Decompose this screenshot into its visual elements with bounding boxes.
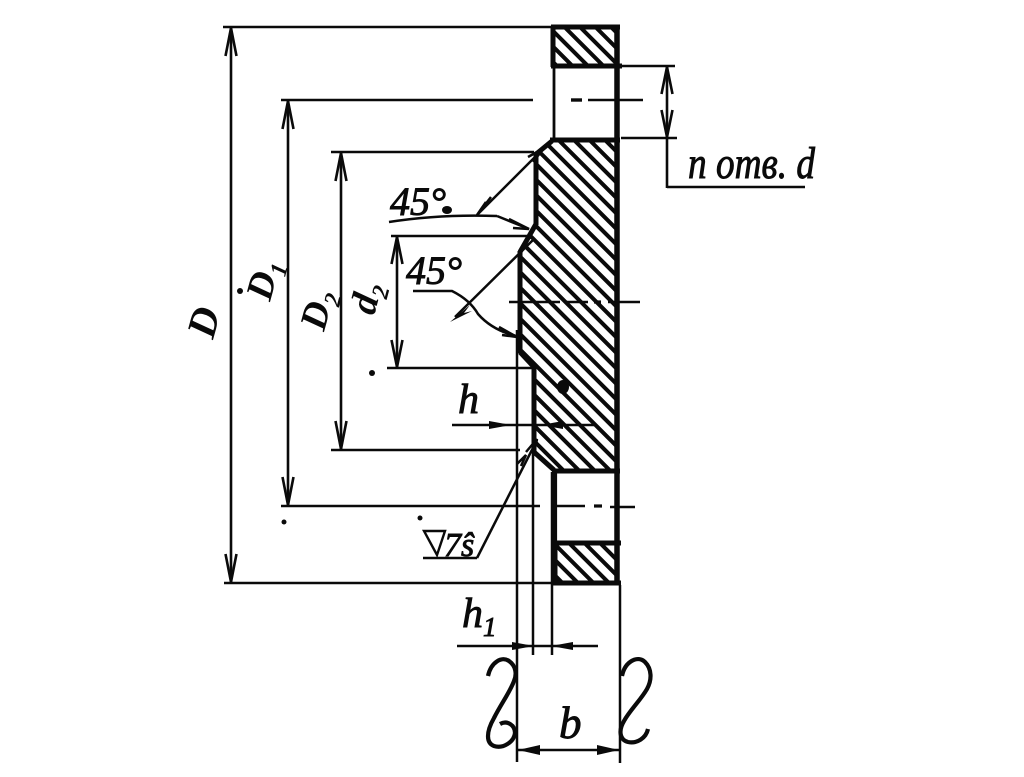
speckle dots xyxy=(237,288,243,294)
dimension h1 xyxy=(457,642,598,650)
dimension n otv d vertical line xyxy=(662,66,806,188)
extension line D1 bottom / lower bolt hole centerline xyxy=(281,506,635,507)
flange bottom ring outline xyxy=(553,543,621,583)
label d2 xyxy=(342,278,395,320)
label D2 xyxy=(292,285,348,336)
break squiggle left xyxy=(488,659,516,746)
svg-text:7ŝ: 7ŝ xyxy=(444,527,475,564)
surface finish mark (nabla) xyxy=(423,531,477,558)
extension line D2 bottom xyxy=(331,449,520,452)
bolt hole upper edge extension right xyxy=(620,65,675,68)
ink blob on section xyxy=(557,380,569,394)
dimension h xyxy=(452,421,594,429)
extension line D1 top / upper bolt hole centerline xyxy=(281,99,643,102)
extension line d2 bottom xyxy=(387,367,533,370)
leader of upper 45 label xyxy=(389,216,529,229)
arrowhead of lower chamfer line xyxy=(450,305,472,322)
bore surface extension line (vertical) xyxy=(516,330,519,762)
chamfer 45 deg extension line (upper) xyxy=(477,147,545,215)
axis centerline (dash-dot) xyxy=(509,301,640,304)
label D1 xyxy=(238,255,294,306)
svg-text:h: h xyxy=(458,377,479,423)
mid face extension line (vertical) xyxy=(532,452,535,655)
svg-text:n отв. d: n отв. d xyxy=(688,139,816,188)
period after 45 deg xyxy=(442,206,452,214)
bolt hole lower edge extension right xyxy=(621,137,677,140)
label D xyxy=(177,302,229,343)
flange top ring outline xyxy=(551,27,622,67)
dimension b xyxy=(518,745,619,755)
dimension line D2 xyxy=(336,152,347,450)
outer face extension line (vertical) xyxy=(551,472,554,655)
svg-text:b: b xyxy=(559,698,582,748)
svg-text:45°: 45° xyxy=(406,248,462,293)
lower bolt hole left edge xyxy=(553,471,557,543)
main flange body outline xyxy=(520,140,620,471)
dimension line d2 xyxy=(392,236,403,368)
upper bolt hole edge (thin) xyxy=(553,67,556,138)
flange outer edge (right) xyxy=(614,25,620,585)
extension line D top / top face xyxy=(223,26,553,29)
extension line d2 top xyxy=(391,235,527,238)
extension line D2 top xyxy=(331,151,534,154)
dimension line D1 xyxy=(283,100,294,506)
chamfer 45 deg extension line (lower) xyxy=(455,238,535,317)
hatched section: main flange body xyxy=(508,130,622,475)
dimension line D xyxy=(226,27,237,583)
break squiggle right xyxy=(621,659,651,742)
leader of surface finish mark xyxy=(477,439,537,558)
leader of lower 45 label xyxy=(413,291,517,337)
hatched section: bottom ring of flange xyxy=(552,541,622,585)
hatched section: top ring of flange xyxy=(551,25,622,69)
extension line D bottom face xyxy=(224,582,553,585)
outer edge extension line (vertical) xyxy=(619,585,622,763)
